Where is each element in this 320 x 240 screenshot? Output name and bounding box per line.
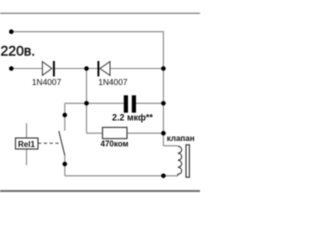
wire capacitor row left (65, 102, 124, 104)
svg-text:Rel1: Rel1 (18, 140, 35, 149)
switch blade S1 (59, 131, 65, 155)
svg-text:470ком: 470ком (101, 140, 129, 149)
svg-text:1N4007: 1N4007 (98, 77, 128, 87)
wire D1 to junction J1 (54, 68, 87, 70)
svg-text:2.2 мкф**: 2.2 мкф** (112, 112, 153, 122)
wire relay coil bottom lead (26, 149, 28, 165)
wire switch top branch (64, 103, 66, 130)
wire D2 to right rail (87, 68, 164, 70)
frame top rule (0, 12, 200, 14)
capacitor C1 plates (124, 95, 136, 112)
node switch bottom terminal (63, 162, 68, 167)
node junction J3 (cap row / J1 drop) (84, 101, 89, 106)
inductor L1 (valve solenoid winding) (178, 146, 182, 176)
node junction J4 (cap row / right rail) (161, 101, 166, 106)
diode D1 (1N4007) (42, 61, 54, 76)
wire capacitor to right rail (136, 102, 163, 104)
relay Rel1 box (16, 138, 39, 149)
wire junction J1 down to resistor row (86, 69, 88, 134)
wire top rail (220V line 1 to right drop) (11, 32, 163, 69)
svg-text:220в.: 220в. (1, 43, 36, 59)
node junction J2 (right rail top) (161, 66, 166, 71)
wire relay coil top lead (26, 123, 28, 138)
wire bottom rail to coil (65, 175, 178, 177)
node junction J1 (between diodes) (84, 66, 89, 71)
wire resistor row left (87, 132, 103, 134)
dashed mechanical link relay to switch (38, 142, 60, 144)
wire resistor to right rail (127, 132, 163, 134)
node switch top terminal (63, 113, 68, 118)
node terminal B (220V line 2) (9, 66, 14, 71)
resistor R1 (470k) (103, 127, 128, 138)
node junction J5 (resistor row / right rail) (161, 131, 166, 136)
frame bottom rule (0, 190, 200, 192)
diode D2 (1N4007, reversed) (98, 61, 110, 76)
solenoid core bar (186, 145, 189, 177)
svg-text:клапан: клапан (167, 134, 195, 143)
wire right rail vertical (162, 69, 164, 146)
node junction J6 (bottom rail / right rail) (161, 174, 166, 179)
wire switch bottom (64, 155, 66, 175)
svg-text:1N4007: 1N4007 (32, 77, 62, 87)
wire 220V line 2 to diode D1 (11, 68, 42, 70)
wire coil top feed (163, 145, 177, 147)
node terminal A (220V line 1) (9, 29, 14, 34)
